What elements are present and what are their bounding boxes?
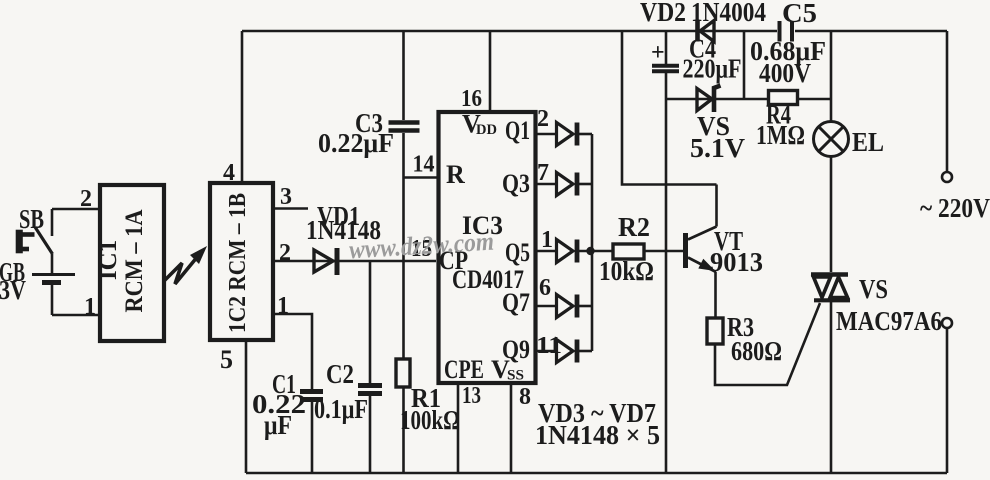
battery GB (51, 254, 54, 273)
zener VS 5.1V (697, 86, 721, 113)
resistor R4 (769, 91, 798, 105)
svg-text:Q3: Q3 (502, 169, 530, 198)
wire IC1 pin1 (52, 314, 100, 317)
resistor R1 (396, 359, 410, 387)
svg-text:μF: μF (264, 410, 292, 440)
pin number labels (80, 86, 562, 410)
svg-text:10kΩ: 10kΩ (599, 256, 654, 286)
wire collector supply branch (622, 31, 717, 185)
wire C4 branch top (665, 31, 668, 64)
wireless link arrow (164, 256, 198, 284)
svg-text:VS: VS (859, 274, 888, 304)
wire R1 branch (402, 261, 405, 359)
diode VD4 (557, 173, 578, 196)
wire IC3 pin13 (457, 383, 460, 473)
wire lamp to triac (830, 157, 833, 273)
svg-text:1MΩ: 1MΩ (756, 120, 805, 150)
diode bus VD3~VD7 (537, 134, 613, 351)
svg-text:MAC97A6: MAC97A6 (836, 306, 942, 336)
svg-text:DD: DD (476, 122, 497, 138)
svg-text:1N4004: 1N4004 (691, 0, 766, 27)
svg-text:VD2: VD2 (640, 0, 686, 27)
svg-text:14: 14 (413, 152, 435, 178)
resistor R2 (613, 244, 644, 259)
svg-text:16: 16 (461, 86, 482, 112)
wire IC1 pin2 (52, 208, 100, 211)
wire C3 branch upper (402, 31, 405, 120)
svg-text:400V: 400V (759, 58, 811, 88)
svg-text:5.1V: 5.1V (690, 133, 746, 163)
wire top rail (242, 30, 777, 33)
wire bottom-right vertical (946, 329, 949, 473)
wire C3 branch lower, continues to CP line (402, 133, 405, 261)
switch SB (51, 209, 54, 236)
triac VS MAC97A6 (811, 275, 850, 301)
emitter arrowhead (698, 259, 715, 271)
wire lamp branch upper (830, 31, 833, 122)
svg-text:9013: 9013 (710, 247, 763, 277)
IC1 box RCM-1A (100, 185, 164, 341)
IC2 box RCM-1B (210, 183, 273, 340)
wire R2 to base (645, 250, 683, 253)
lamp EL (814, 122, 849, 157)
diode VD6 (557, 295, 578, 318)
wire diode bus vertical (591, 134, 594, 351)
svg-text:EL: EL (852, 127, 884, 157)
resistor R3 (707, 318, 723, 344)
capacitor C4 electrolytic (652, 64, 679, 68)
svg-text:4: 4 (223, 160, 235, 186)
wire IC2 pin1 / C1 branch (273, 314, 312, 389)
diode VD3 (557, 123, 578, 146)
svg-text:Q5: Q5 (505, 238, 530, 267)
svg-text:CD4017: CD4017 (452, 265, 524, 294)
svg-text:~ 220V: ~ 220V (920, 193, 990, 223)
svg-text:13: 13 (462, 383, 481, 409)
svg-text:2: 2 (80, 186, 92, 212)
svg-text:1N4148 × 5: 1N4148 × 5 (535, 420, 660, 450)
svg-text:SS: SS (507, 368, 524, 384)
capacitor C5 (778, 21, 782, 42)
node junction dot Q5 bus (586, 247, 594, 255)
wire R3 bottom to triac gate (715, 303, 820, 385)
svg-text:R2: R2 (618, 212, 650, 242)
wire triac to bottom rail (830, 302, 833, 473)
wire IC2 pin2 / CP line (273, 260, 436, 263)
svg-text:RCM – 1A: RCM – 1A (121, 210, 148, 313)
wire C2 branch (369, 261, 372, 383)
svg-text:3: 3 (280, 184, 292, 210)
wire VD2-C5 junction down (743, 31, 746, 99)
capacitor C2 (358, 383, 382, 388)
wire R4 right to lamp line (797, 98, 831, 101)
svg-text:1C2 RCM – 1B: 1C2 RCM – 1B (225, 193, 251, 333)
node mains terminal top (942, 172, 952, 182)
IC3 box CD4017 (439, 112, 536, 383)
capacitor C3 (389, 120, 420, 125)
svg-text:+: + (651, 40, 665, 66)
svg-text:1: 1 (277, 293, 289, 319)
wire right vertical to top mains terminal (946, 31, 949, 171)
svg-text:C5: C5 (782, 0, 817, 28)
svg-text:2: 2 (279, 240, 291, 266)
diode VD7 (557, 340, 578, 363)
svg-text:5: 5 (220, 345, 233, 374)
svg-text:11: 11 (536, 333, 562, 359)
svg-text:1: 1 (541, 227, 553, 253)
svg-text:6: 6 (539, 275, 551, 301)
diode VD1 1N4148 (314, 248, 337, 275)
svg-text:IC1: IC1 (95, 240, 122, 280)
svg-text:SB: SB (19, 204, 44, 234)
svg-text:3V: 3V (0, 275, 26, 305)
svg-text:R: R (446, 160, 465, 189)
svg-text:220μF: 220μF (683, 54, 742, 84)
svg-text:680Ω: 680Ω (731, 336, 782, 366)
wire bottom rail (246, 472, 947, 475)
diode VD2 1N4004 (698, 21, 715, 42)
svg-text:CPE: CPE (444, 355, 484, 384)
wire pin14 jog (404, 176, 438, 179)
svg-text:8: 8 (519, 384, 531, 410)
transistor VT 9013 (686, 185, 717, 319)
svg-text:C2: C2 (326, 359, 354, 389)
wire IC2 pin3 stub (273, 207, 308, 210)
svg-text:2: 2 (537, 106, 549, 132)
wire IC2 pin5 to bottom rail (245, 340, 248, 473)
capacitor C1 (300, 389, 323, 394)
svg-text:1: 1 (84, 294, 96, 320)
svg-text:0.22μF: 0.22μF (318, 128, 394, 158)
wire IC3 pin16 (489, 31, 492, 114)
wire IC3 pin8 (510, 383, 513, 473)
wire C4 bottom to ground rail (665, 73, 668, 473)
svg-text:Q1: Q1 (505, 116, 530, 145)
svg-text:0.1μF: 0.1μF (314, 394, 368, 424)
svg-text:100kΩ: 100kΩ (400, 405, 460, 435)
diode VD5 (557, 240, 578, 263)
svg-text:7: 7 (537, 160, 549, 186)
wire zener row (666, 98, 769, 101)
IC3 internal labels (439, 110, 530, 385)
node mains terminal bottom (942, 318, 952, 328)
wire IC2 pin4 to top rail (241, 31, 244, 183)
